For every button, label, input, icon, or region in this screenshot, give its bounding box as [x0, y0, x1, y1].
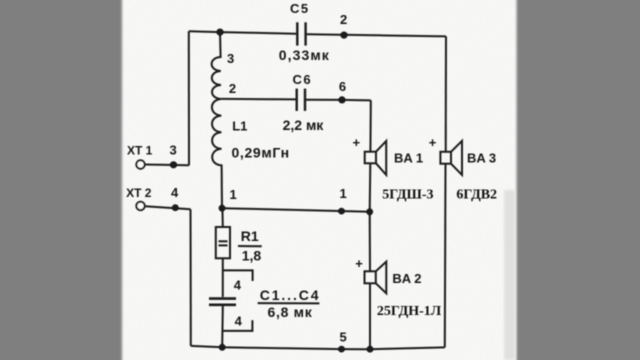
node 1 junction right [366, 208, 373, 215]
loudspeaker BA3 [440, 152, 451, 164]
wire BA1 to node 1 [369, 163, 372, 212]
wire C5 to node 2 corner [307, 34, 446, 36]
svg-text:2,2 мк: 2,2 мк [283, 117, 325, 133]
wire C6 to node 6 corner [306, 99, 371, 102]
svg-text:+: + [429, 135, 437, 150]
wire BA2 to bottom rail [369, 283, 371, 349]
svg-text:R1: R1 [241, 228, 259, 244]
svg-text:XT 1: XT 1 [127, 143, 153, 157]
junction L1 top [216, 28, 223, 35]
svg-text:BA 1: BA 1 [394, 151, 423, 166]
svg-text:L1: L1 [232, 119, 247, 134]
wire capacitor to bottom rail [221, 306, 224, 347]
svg-text:5: 5 [340, 330, 347, 345]
wire XT2 to left rail [145, 206, 191, 209]
wire left rail vertical [188, 31, 190, 165]
svg-text:4: 4 [171, 185, 179, 200]
white scan area [122, 0, 517, 360]
wire node 1 rail [222, 208, 370, 212]
terminal XT1 [136, 160, 144, 168]
svg-text:4: 4 [234, 278, 242, 293]
wire BA1 down to BA2 [369, 212, 371, 271]
bracket bottom of C1..C4 [223, 320, 253, 331]
svg-text:1: 1 [340, 186, 347, 201]
svg-text:4: 4 [235, 314, 243, 329]
svg-text:C1...C4: C1...C4 [260, 287, 321, 303]
wire right rail lower [444, 164, 447, 348]
XT2 pin 4 dot [172, 204, 179, 211]
svg-text:0,33мк: 0,33мк [279, 47, 330, 63]
svg-text:5ГДШ-3: 5ГДШ-3 [382, 187, 433, 202]
svg-text:2: 2 [340, 12, 347, 27]
right edge shading [504, 190, 515, 360]
node 2 junction [340, 31, 347, 38]
svg-text:6,8 мк: 6,8 мк [268, 304, 313, 320]
resistor R1 [216, 227, 230, 258]
svg-text:2: 2 [229, 81, 236, 96]
fraction bar R1 [238, 245, 262, 247]
bottom rail dot C1..C4 [219, 344, 226, 351]
svg-text:C6: C6 [293, 72, 313, 87]
node 1 junction left [219, 205, 226, 212]
svg-text:0,29мГн: 0,29мГн [232, 144, 290, 160]
node 6 junction [338, 96, 345, 103]
svg-text:3: 3 [170, 142, 177, 157]
svg-text:+: + [353, 135, 361, 150]
svg-text:BA 2: BA 2 [392, 271, 421, 286]
svg-text:6: 6 [339, 79, 346, 94]
svg-text:+: + [355, 256, 363, 271]
node 1 junction mid [338, 208, 345, 215]
wire right rail upper [445, 36, 447, 151]
wire node1 to R1 [221, 208, 223, 227]
svg-text:6ГДВ2: 6ГДВ2 [456, 187, 497, 202]
loudspeaker BA2 [365, 271, 376, 283]
inductor L1 [212, 32, 222, 208]
loudspeaker BA1 [365, 152, 376, 164]
terminal XT2 [136, 202, 144, 210]
bracket top of C1..C4 [223, 270, 253, 281]
fraction bar C1..C4 [258, 302, 320, 304]
bottom rail dot node 5 [338, 346, 345, 353]
wire top rail [189, 31, 296, 33]
svg-text:1,8: 1,8 [242, 248, 262, 264]
bottom rail dot BA2 [367, 346, 374, 353]
wire bottom rail [191, 346, 445, 349]
svg-text:XT 2: XT 2 [126, 186, 152, 200]
svg-text:1: 1 [230, 187, 237, 202]
wire down to BA1 [369, 100, 371, 151]
svg-text:C5: C5 [290, 1, 310, 16]
svg-text:25ГДН-1Л: 25ГДН-1Л [377, 304, 442, 319]
wire R1 to capacitor [222, 258, 224, 297]
XT1 pin 3 dot [170, 161, 177, 168]
wire left lower vertical [190, 209, 192, 346]
capacitor C1..C4 [209, 297, 236, 300]
wire L1 tap to C6 [221, 98, 296, 101]
svg-text:BA 3: BA 3 [467, 151, 496, 166]
svg-text:3: 3 [227, 51, 234, 66]
capacitor C6 [296, 89, 298, 111]
scan noise [122, 0, 517, 360]
capacitor C5 [296, 22, 298, 45]
wire XT1 to left rail [145, 164, 189, 167]
